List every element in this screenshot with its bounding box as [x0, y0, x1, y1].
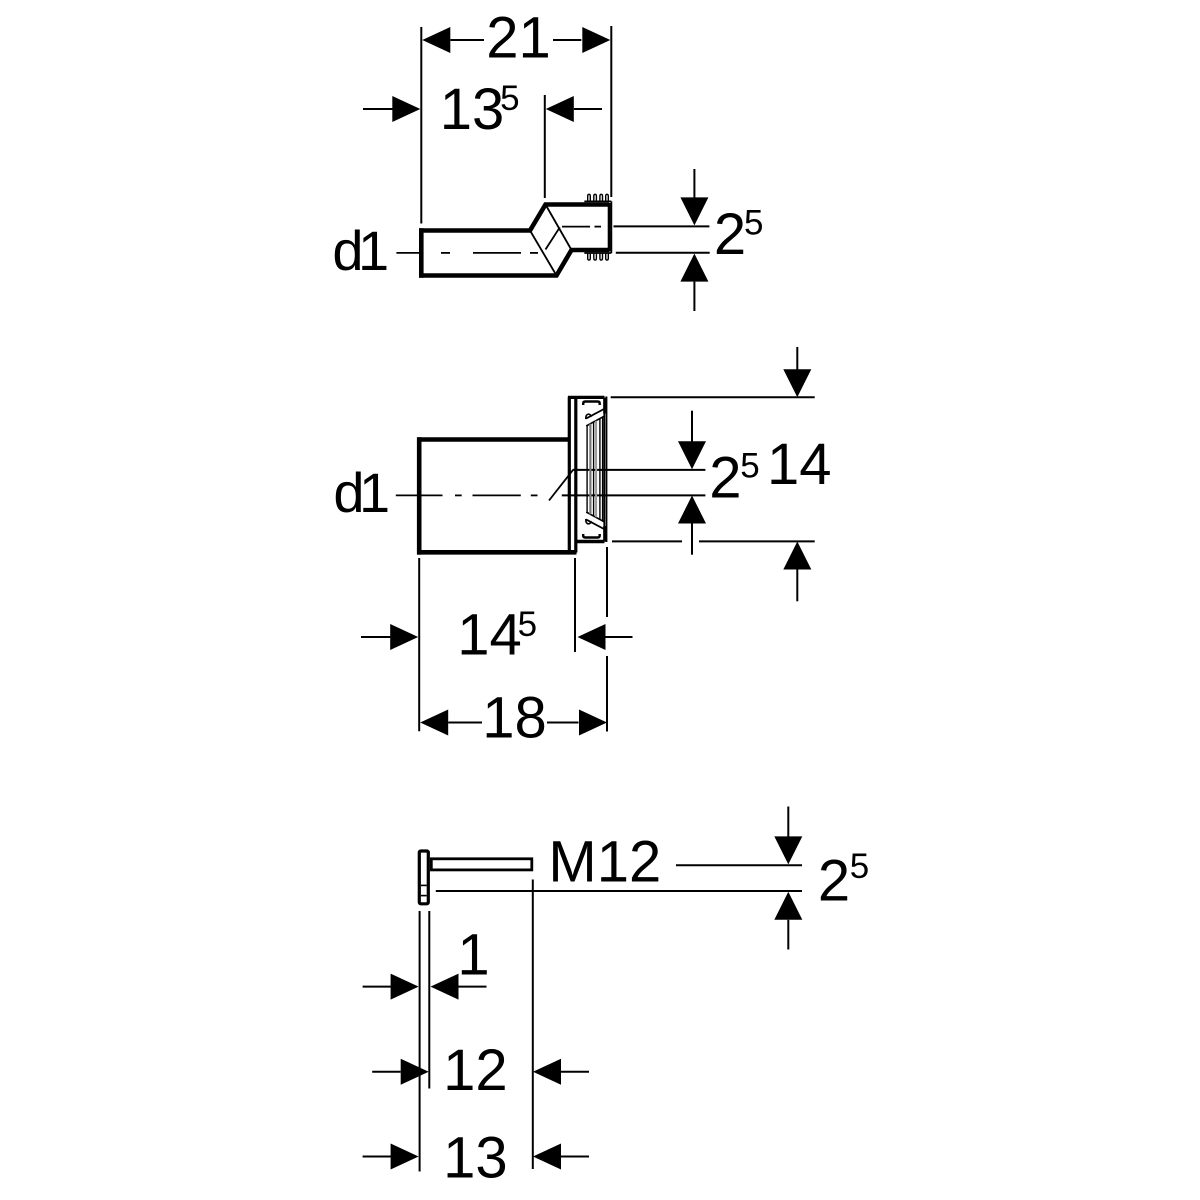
- dimension 14.5: [361, 603, 633, 668]
- dimension 13.5: [363, 77, 602, 142]
- pipe right end edge (top view): [608, 203, 611, 252]
- dimension 13: [363, 1126, 589, 1191]
- svg-text:d1: d1: [333, 461, 388, 524]
- flange left wall 1 (middle view): [568, 397, 571, 553]
- pipe body outline (top view): [419, 205, 609, 278]
- svg-text:14: 14: [457, 603, 522, 668]
- svg-text:14: 14: [767, 432, 832, 497]
- arrow up 2.5 (bolt): [774, 892, 802, 950]
- extension line mid (14.5, middle view): [574, 558, 576, 652]
- arrow down 2.5 (bolt): [774, 807, 802, 865]
- extension line left (14.5 / 18, middle view): [418, 558, 420, 731]
- svg-text:13: 13: [443, 1126, 508, 1191]
- centerline main (top view): [396, 252, 538, 254]
- extension line right (21): [610, 26, 612, 197]
- centerline main (middle view): [396, 494, 538, 496]
- svg-text:2: 2: [709, 446, 741, 511]
- flange bottom edge (middle view): [576, 540, 605, 544]
- arrow up 14 (middle view): [783, 542, 811, 602]
- gasket upper (top view): [584, 194, 611, 201]
- reference line bottom 14 (middle view): [612, 540, 682, 542]
- extension line head-right (bolt): [428, 911, 430, 1089]
- flange corner block top (middle view): [603, 398, 607, 414]
- gasket right cap (top view): [610, 201, 612, 253]
- svg-text:13: 13: [440, 77, 505, 142]
- miter joint line 2 (top view): [546, 205, 572, 251]
- bolt head center ticks: [421, 884, 427, 886]
- gasket lower (top view): [584, 253, 611, 260]
- flange left wall 2 (middle view): [574, 399, 577, 553]
- flange corner block bottom (middle view): [603, 526, 607, 542]
- extension line head-left (bolt): [419, 911, 421, 1172]
- seal diagonal bottom A (middle view): [586, 519, 604, 529]
- extension line left (21 / 13.5): [420, 27, 422, 224]
- reference line upper 2.5 (top view): [614, 225, 710, 227]
- flange axis reference line (middle view): [573, 469, 706, 471]
- svg-text:18: 18: [482, 685, 547, 750]
- seal corrugation lines (middle view): [587, 417, 603, 521]
- svg-text:5: 5: [850, 847, 869, 886]
- svg-text:2: 2: [818, 848, 850, 913]
- bolt head: [419, 851, 428, 904]
- dimension 18: [420, 685, 607, 750]
- pipe body (middle view): [417, 437, 577, 554]
- flange right edge outer (middle view): [605, 397, 607, 543]
- centerline jog (top view): [546, 227, 560, 249]
- arrow up 2.5 (middle view): [678, 496, 706, 555]
- miter joint line 1 (top view): [530, 231, 557, 276]
- svg-text:5: 5: [744, 204, 763, 243]
- seal diagonal top A (middle view): [586, 409, 604, 419]
- flange top edge (middle view): [568, 396, 605, 399]
- seal hook top (middle view): [586, 414, 591, 419]
- svg-text:2: 2: [714, 202, 746, 267]
- extension line middle (13.5): [544, 95, 546, 198]
- arrow down 14 (middle view): [783, 347, 811, 397]
- arrow down 2.5 (middle view): [678, 411, 706, 470]
- seal diagonal bottom B (middle view): [586, 512, 604, 522]
- extension line shaft-end (bolt): [532, 880, 534, 1170]
- flange right edge inner (middle view): [603, 398, 605, 541]
- svg-text:5: 5: [740, 447, 759, 486]
- svg-text:5: 5: [518, 605, 537, 644]
- svg-text:12: 12: [443, 1038, 508, 1103]
- svg-text:1: 1: [457, 923, 489, 988]
- reference line top 14 (middle view): [611, 396, 815, 398]
- svg-text:5: 5: [500, 79, 519, 118]
- reference line lower 2.5 (top view): [616, 252, 710, 254]
- seal hook bottom (middle view): [586, 519, 591, 524]
- svg-text:21: 21: [486, 6, 551, 71]
- flange lip bottom (middle view): [583, 534, 600, 538]
- dimension 1: [363, 923, 490, 1000]
- svg-text:M12: M12: [548, 830, 661, 895]
- reference line upper 2.5 (bolt): [676, 864, 802, 866]
- dimension 21: [422, 6, 610, 71]
- dimension 12: [372, 1038, 589, 1103]
- arrow up 2.5 (top view): [680, 254, 708, 311]
- seal diagonal top B (middle view): [586, 416, 604, 426]
- centerline solid extension (middle view): [562, 494, 706, 496]
- centerline jog (middle view): [549, 470, 573, 500]
- centerline upper section (top view): [562, 226, 601, 228]
- bolt shaft: [431, 859, 532, 870]
- reference line lower 2.5 (bolt): [436, 890, 802, 892]
- svg-text:d1: d1: [332, 219, 387, 282]
- arrow down 2.5 (top view): [680, 169, 708, 225]
- flange lip top (middle view): [583, 402, 600, 406]
- extension line right (18, middle view): [606, 547, 608, 617]
